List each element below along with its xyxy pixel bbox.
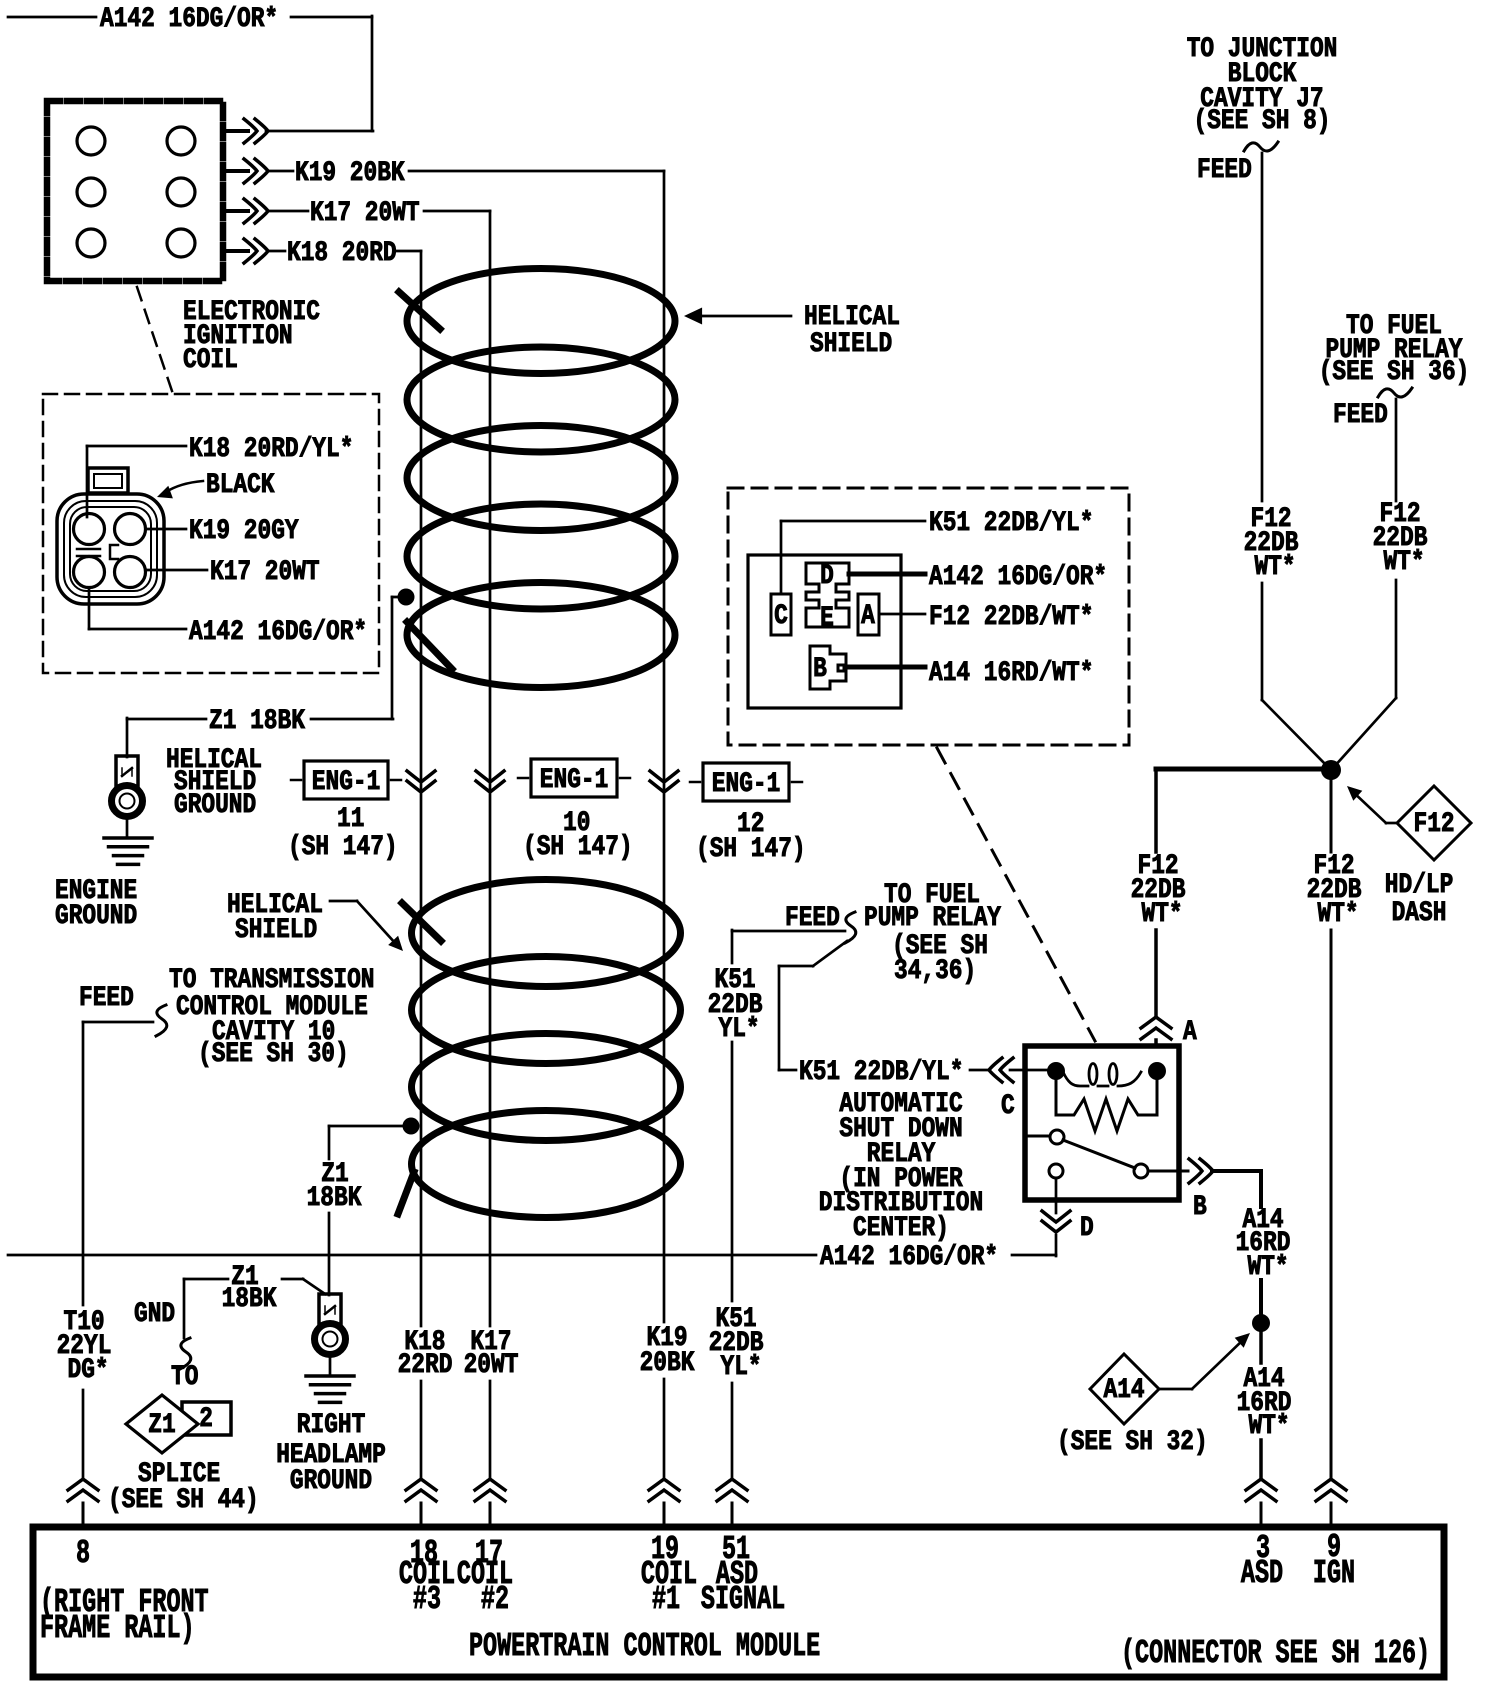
svg-text:34,36): 34,36): [894, 956, 976, 987]
ASD relay box: [1025, 1046, 1179, 1200]
relay pin D wire: [1042, 1178, 1094, 1256]
label K17 20WT: [464, 1327, 519, 1381]
svg-text:C: C: [1001, 1091, 1015, 1122]
label K19 20BK: [640, 1323, 695, 1379]
connector electronic ignition coil (6-cavity): [47, 101, 223, 281]
svg-text:ENG-1: ENG-1: [540, 765, 609, 796]
relay pin B wire A14 16RD/WT*: [1148, 1159, 1290, 1332]
wire K19 vertical run: [663, 171, 666, 1479]
svg-text:(SH 147): (SH 147): [288, 832, 398, 863]
label K18 22RD: [398, 1327, 453, 1381]
feed break (junction block): [1197, 142, 1278, 186]
svg-text:HD/LP: HD/LP: [1385, 870, 1454, 901]
svg-text:K17 20WT: K17 20WT: [310, 198, 420, 229]
svg-text:(SEE SH 32): (SEE SH 32): [1057, 1427, 1208, 1458]
svg-text:11: 11: [337, 804, 364, 835]
wire Z1 18BK to helical shield ground: [127, 589, 415, 758]
4-way connector face view: [57, 468, 164, 604]
pin arrow 4 + wire K18 20RD: [222, 238, 421, 269]
wire F12 22DB/WT* from fuel pump relay: [1333, 399, 1428, 768]
label K51 22DB YL*: [709, 1304, 764, 1383]
PCM pin 17 coil #2: [457, 1535, 513, 1618]
svg-text:WT*: WT*: [1249, 1411, 1290, 1442]
svg-text:(SH 147): (SH 147): [523, 832, 633, 863]
PCM pin 9 IGN: [1313, 1529, 1355, 1592]
svg-text:E: E: [820, 603, 834, 634]
ASD relay coil: [1047, 1062, 1166, 1115]
svg-text:GROUND: GROUND: [290, 1466, 372, 1497]
inline connector chevrons (K18,K17,K19): [407, 771, 678, 792]
feed break (TCM): [79, 983, 167, 1036]
wire K18 20RD/YL* (face view): [87, 434, 353, 517]
label to fuel pump relay (see sh 34,36): [785, 880, 1001, 987]
wire K51 22DB/YL with feed branch: [732, 912, 856, 1479]
svg-text:Z1 18BK: Z1 18BK: [209, 706, 305, 737]
label engine ground: [55, 876, 137, 932]
svg-text:(SEE SH 30): (SEE SH 30): [198, 1039, 349, 1070]
relay pin C chevron + label: [1001, 1091, 1015, 1122]
label electronic ignition coil: [183, 297, 320, 376]
pin arrow 1 (A142): [222, 119, 268, 143]
PCM pin 51 ASD signal: [701, 1531, 785, 1618]
splice node F12: [1156, 760, 1341, 780]
wire F12 22DB/WT* (cavity A): [879, 602, 1093, 633]
svg-text:WT*: WT*: [1255, 552, 1296, 583]
label helical shield ground: [166, 745, 262, 821]
svg-text:K17 20WT: K17 20WT: [210, 557, 320, 588]
svg-text:D: D: [820, 561, 834, 592]
feed break (fuel pump relay): [1333, 388, 1412, 431]
svg-text:K18 20RD: K18 20RD: [287, 238, 397, 269]
svg-text:A142 16DG/OR*: A142 16DG/OR*: [100, 4, 278, 35]
svg-text:K51 22DB/YL*: K51 22DB/YL*: [929, 508, 1093, 539]
svg-text:A142 16DG/OR*: A142 16DG/OR*: [929, 562, 1107, 593]
label automatic shut down relay: [819, 1089, 983, 1244]
svg-text:A14 16RD/WT*: A14 16RD/WT*: [929, 658, 1093, 689]
svg-text:ASD: ASD: [1241, 1555, 1283, 1592]
svg-text:GROUND: GROUND: [174, 790, 256, 821]
wire A142 16DG/OR* long run: [8, 1242, 1056, 1273]
svg-text:B: B: [813, 654, 827, 685]
wire F12 22DB/WT* from junction block: [1244, 153, 1329, 768]
svg-text:20BK: 20BK: [640, 1348, 695, 1379]
svg-text:GND: GND: [134, 1299, 175, 1330]
svg-text:TO: TO: [171, 1362, 198, 1393]
svg-text:ENG-1: ENG-1: [712, 769, 781, 800]
svg-text:(SEE SH 8): (SEE SH 8): [1194, 106, 1331, 137]
helical shield (lower coil): [398, 880, 681, 1218]
svg-text:K19 20BK: K19 20BK: [295, 158, 405, 189]
svg-text:K51 22DB/YL*: K51 22DB/YL*: [799, 1057, 963, 1088]
label to fuel pump relay (see sh 36): [1319, 311, 1470, 388]
label BLACK with arrow: [157, 470, 275, 501]
svg-text:#3: #3: [413, 1581, 441, 1618]
svg-text:COIL: COIL: [183, 345, 238, 376]
svg-text:WT*: WT*: [1142, 899, 1183, 930]
svg-text:RIGHT: RIGHT: [297, 1410, 366, 1441]
relay pin A wire: [1131, 771, 1197, 1048]
svg-text:FEED: FEED: [79, 983, 134, 1014]
wire K19 20GY (face view): [147, 516, 299, 547]
dashed leader to ASD relay: [937, 748, 1095, 1041]
svg-text:K19 20GY: K19 20GY: [189, 516, 299, 547]
wire K18 vertical run: [420, 251, 423, 1479]
dashed leader to connector face view: [137, 287, 172, 391]
wire Z1 18BK from lower coil: [307, 1118, 420, 1296]
label helical shield (lower) with arrow: [227, 890, 403, 951]
svg-text:FEED: FEED: [1333, 400, 1388, 431]
svg-text:2: 2: [199, 1404, 213, 1435]
svg-text:B: B: [1193, 1192, 1207, 1223]
svg-text:20WT: 20WT: [464, 1350, 519, 1381]
wire K17 20WT (face view): [147, 557, 320, 588]
pin arrow 2 + wire K19 20BK: [222, 158, 664, 189]
connector face view box (dashed): [43, 394, 379, 673]
label to transmission control module: [169, 965, 375, 1070]
svg-text:A: A: [861, 601, 875, 632]
svg-text:DG*: DG*: [68, 1355, 109, 1386]
svg-text:CENTER): CENTER): [853, 1213, 949, 1244]
helical shield (upper coil): [399, 269, 675, 688]
wire A142 16DG/OR top lead: [8, 4, 373, 131]
svg-text:FRAME RAIL): FRAME RAIL): [40, 1610, 195, 1647]
svg-text:Z1: Z1: [148, 1410, 175, 1441]
svg-text:A142 16DG/OR*: A142 16DG/OR*: [189, 617, 367, 648]
connector ENG-1 ref 12: [690, 763, 806, 865]
splice symbol Z1 / 2: [126, 1362, 231, 1453]
svg-text:DASH: DASH: [1392, 898, 1447, 929]
PCM pin 19 coil #1: [641, 1531, 697, 1618]
svg-text:F12 22DB/WT*: F12 22DB/WT*: [929, 602, 1093, 633]
svg-text:K18 20RD/YL*: K18 20RD/YL*: [189, 434, 353, 465]
label HD/LP DASH: [1385, 870, 1454, 929]
ASD relay connector box (dashed): [728, 488, 1129, 745]
svg-text:PUMP RELAY: PUMP RELAY: [864, 903, 1001, 934]
connector ENG-1 ref 11: [288, 761, 401, 863]
splice symbol A14 (see sh 32): [1057, 1333, 1250, 1458]
svg-text:18BK: 18BK: [222, 1284, 277, 1315]
svg-text:#1: #1: [652, 1581, 680, 1618]
svg-text:SIGNAL: SIGNAL: [701, 1581, 785, 1618]
label helical shield (upper) with arrow: [684, 302, 900, 360]
engine ground symbol: [104, 838, 152, 864]
wire T10 22YL/DG*: [57, 1022, 153, 1479]
svg-text:(CONNECTOR SEE SH 126): (CONNECTOR SEE SH 126): [1121, 1635, 1430, 1672]
svg-text:FEED: FEED: [1197, 155, 1252, 186]
label right front frame rail: [40, 1584, 209, 1647]
svg-text:(SEE SH 44): (SEE SH 44): [108, 1485, 259, 1516]
svg-text:18BK: 18BK: [307, 1183, 362, 1214]
wire A14 16RD/WT* to ASD pin 3: [1237, 1328, 1292, 1479]
svg-text:(SEE SH 36): (SEE SH 36): [1319, 357, 1470, 388]
label to junction block cavity J7: [1187, 34, 1338, 137]
svg-text:A142 16DG/OR*: A142 16DG/OR*: [820, 1242, 998, 1273]
svg-text:D: D: [1080, 1213, 1094, 1244]
label K51 22DB YL* (upper): [708, 965, 763, 1045]
svg-text:F12: F12: [1414, 809, 1455, 840]
svg-text:A: A: [1183, 1017, 1197, 1048]
PCM pin connector chevrons: [68, 1479, 1346, 1524]
label right headlamp ground: [276, 1410, 386, 1497]
svg-text:22RD: 22RD: [398, 1350, 453, 1381]
PCM pin 3 ASD: [1241, 1530, 1283, 1592]
svg-text:YL*: YL*: [719, 1014, 760, 1045]
wire Z1 18BK splice branch: [134, 1262, 325, 1369]
connector ENG-1 ref 10: [518, 759, 633, 863]
ASD relay resistor: [1056, 1099, 1157, 1131]
svg-text:IGN: IGN: [1313, 1555, 1355, 1592]
wire F12 22DB/WT* to IGN: [1307, 770, 1362, 1479]
svg-text:#2: #2: [481, 1581, 509, 1618]
ASD relay connector cavity view: [748, 555, 901, 708]
wire K51 22DB/YL* (cavity C): [781, 508, 1093, 594]
svg-text:GROUND: GROUND: [55, 901, 137, 932]
svg-text:A14: A14: [1104, 1375, 1145, 1406]
svg-text:BLACK: BLACK: [206, 470, 275, 501]
ASD relay switch: [1024, 1130, 1148, 1178]
wire K17 vertical run: [489, 211, 492, 1479]
svg-text:SHIELD: SHIELD: [235, 915, 317, 946]
wire A142 16DG/OR* (face view): [89, 588, 367, 648]
pin arrow 3 + wire K17 20WT: [222, 198, 490, 229]
label splice (see sh 44): [108, 1459, 259, 1516]
svg-text:8: 8: [76, 1535, 90, 1572]
helical shield ground ring terminal: [112, 756, 143, 838]
wire A142 16DG/OR* (cavity D): [849, 562, 1107, 593]
svg-text:ENG-1: ENG-1: [312, 767, 381, 798]
PCM pin 18 coil #3: [399, 1535, 455, 1618]
svg-text:C: C: [774, 601, 788, 632]
svg-text:WT*: WT*: [1318, 899, 1359, 930]
wire A14 16RD/WT* (cavity B): [845, 658, 1093, 689]
right headlamp ground symbol: [306, 1374, 354, 1378]
svg-text:SHIELD: SHIELD: [810, 329, 892, 360]
svg-text:WT*: WT*: [1384, 547, 1425, 578]
powertrain control module box: [33, 1527, 1444, 1677]
right headlamp ground ring terminal: [315, 1294, 346, 1376]
wire K51 22DB/YL* to ASD relay pin C: [779, 941, 1053, 1088]
svg-text:WT*: WT*: [1248, 1252, 1289, 1283]
svg-text:YL*: YL*: [721, 1352, 762, 1383]
svg-text:POWERTRAIN CONTROL MODULE: POWERTRAIN CONTROL MODULE: [469, 1628, 820, 1665]
svg-text:FEED: FEED: [785, 903, 840, 934]
svg-text:(SH 147): (SH 147): [696, 834, 806, 865]
splice symbol F12 (HD/LP DASH): [1347, 786, 1471, 860]
